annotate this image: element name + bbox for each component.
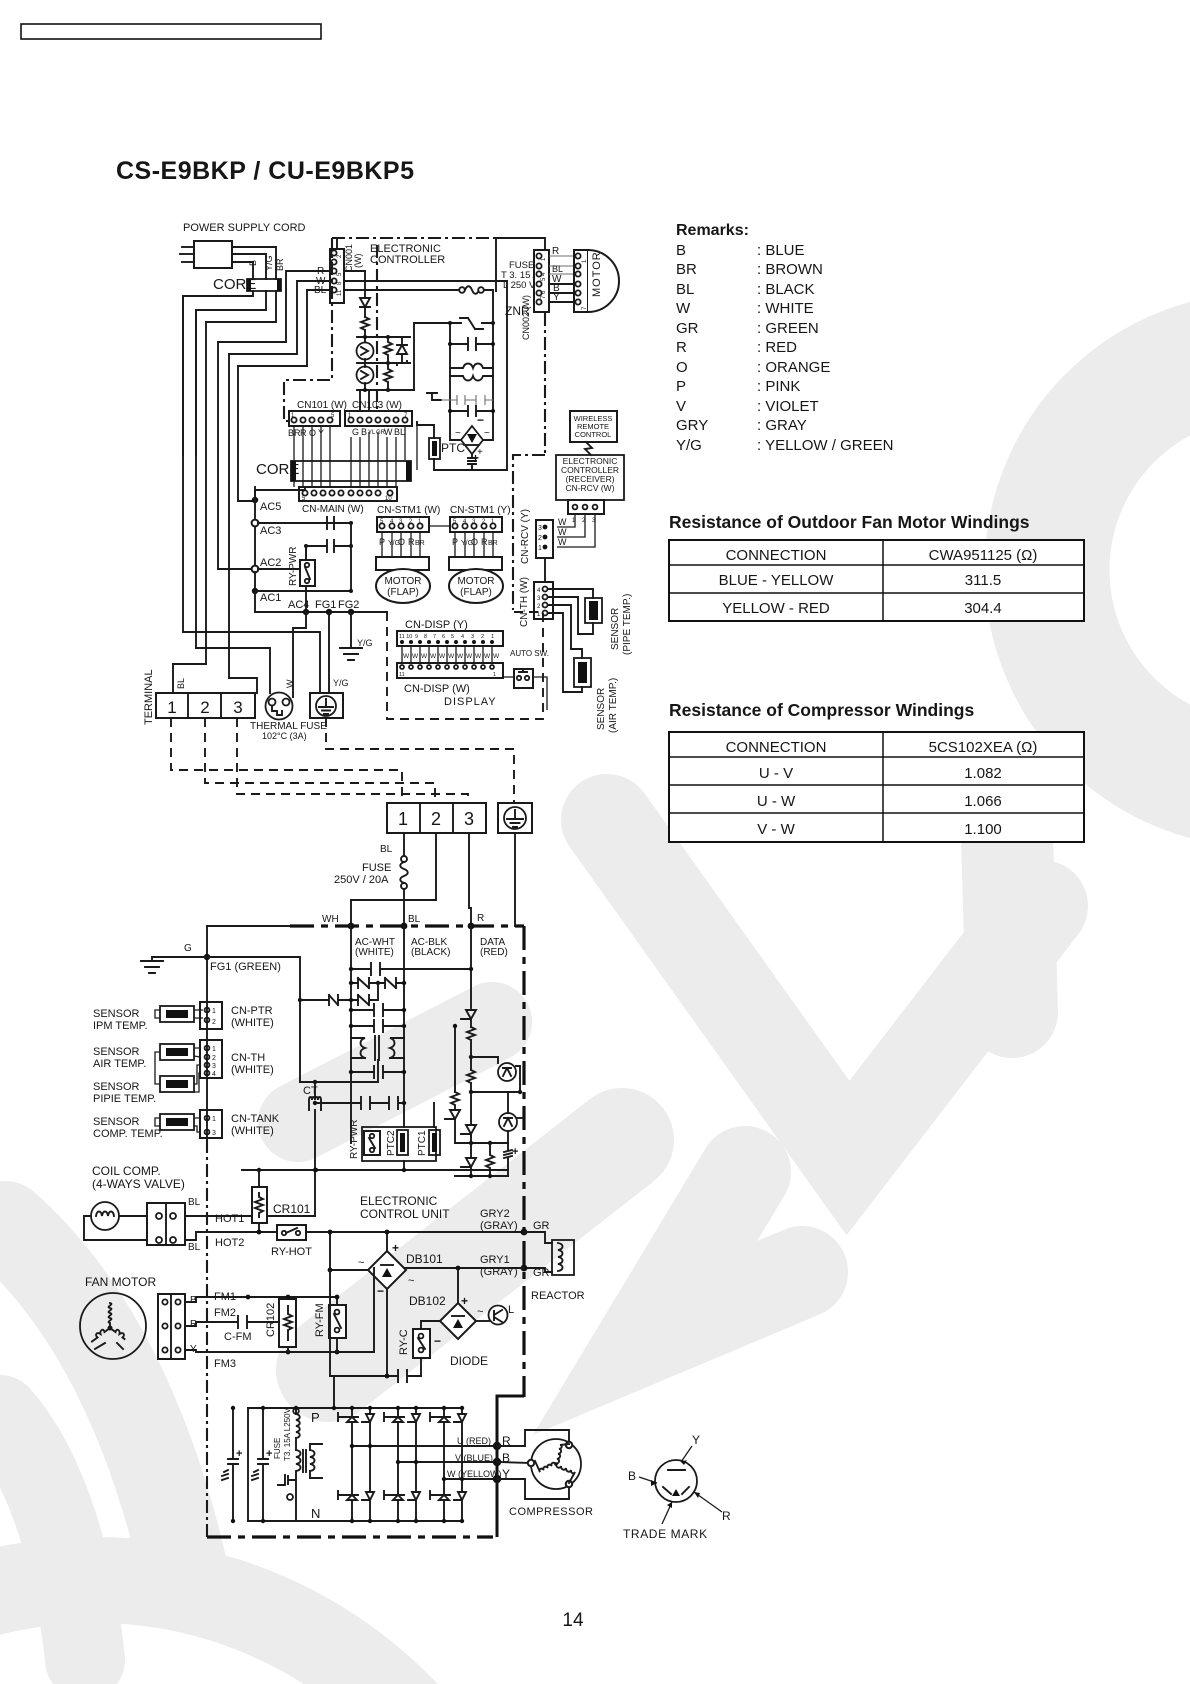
svg-text:W: W [412,653,419,660]
svg-text:Y: Y [692,1433,700,1447]
bridge + output to ground [468,454,476,470]
harness labels W row [403,653,500,660]
capacitor row 2 [450,406,493,416]
svg-text:AC2: AC2 [260,557,281,569]
svg-text:W: W [439,653,446,660]
wires CN103 pins down through core [350,437,352,487]
AC5 node [252,497,258,503]
resistor on R rail [467,1027,475,1040]
svg-text:: VIOLET: : VIOLET [757,398,819,415]
electrolytic cap 2 [258,1408,268,1521]
svg-text:BL: BL [380,844,393,855]
thermistor ipm [160,1006,194,1022]
capacitor row y1010 [351,1004,404,1016]
svg-text:W: W [448,653,455,660]
svg-text:FM2: FM2 [214,1307,236,1319]
svg-text:3: 3 [538,525,542,532]
svg-text:B: B [361,427,367,437]
bus wire B [182,296,184,632]
inverter feed riser [333,1376,335,1408]
wire FM1 [185,1297,337,1302]
wires display harness [402,646,492,663]
wires CN-TH to pipe sensor [548,589,593,598]
svg-text:250V / 20A: 250V / 20A [334,874,389,886]
svg-text:BR: BR [275,258,285,271]
svg-text:~: ~ [477,1306,483,1318]
svg-text:W: W [457,653,464,660]
wire R into CN001 [218,271,330,342]
svg-text:DB101: DB101 [406,1252,443,1266]
svg-text:L: L [508,1304,514,1316]
svg-text:O: O [398,537,405,547]
node FG1 [326,609,332,615]
svg-text:CN-PTR: CN-PTR [231,1005,273,1017]
svg-text:CONTROL: CONTROL [575,430,612,439]
FG2 wire to ground [350,612,352,648]
svg-text:304.4: 304.4 [964,600,1002,617]
svg-text:~: ~ [484,428,490,439]
wires coil comp [84,1216,147,1240]
svg-text:11: 11 [399,672,405,678]
svg-text:Y/G: Y/G [333,678,349,688]
svg-text:Y: Y [553,292,560,303]
svg-text:P: P [676,378,686,395]
svg-text:CN-STM1 (Y): CN-STM1 (Y) [450,505,511,516]
svg-text:5 4: 5 4 [541,272,547,281]
svg-text:14: 14 [562,1610,584,1631]
wires receiver to CN-RCV [557,514,575,527]
wires CN101 pins down through core [293,426,295,487]
indoor border left verticals [376,245,378,412]
watermark ring letter top-right [1047,355,1190,785]
relay RY-FM [329,1305,346,1338]
PTC2 [397,1130,408,1155]
svg-text:(GRAY): (GRAY) [480,1220,518,1232]
svg-text:GR: GR [533,1220,550,1232]
opto transistor 2 [507,1092,509,1113]
svg-text:SENSOR: SENSOR [610,608,621,650]
svg-text:CN-RCV (W): CN-RCV (W) [565,483,614,493]
node R [468,923,475,930]
wire G to filter [207,957,300,1082]
svg-text:BL: BL [314,285,327,296]
node GR2 [521,1229,528,1236]
svg-text:CR102: CR102 [265,1303,277,1337]
svg-text:1: 1 [212,1008,216,1015]
svg-text:CONNECTION: CONNECTION [726,739,827,756]
thick drop to border [496,1484,499,1537]
svg-text:CONTROL UNIT: CONTROL UNIT [360,1207,450,1221]
right ZNR rail [483,323,493,440]
svg-text:(RED): (RED) [480,947,508,958]
ZNR varistor symbol [450,318,493,329]
trademark circle [655,1460,697,1502]
node GR1 [521,1265,528,1272]
svg-text:GRY2: GRY2 [480,1208,510,1220]
rail R down [470,926,472,1008]
svg-text:2: 2 [538,535,542,542]
svg-text:FM3: FM3 [214,1358,236,1370]
watermark bottom-left arcs [5,1225,185,1575]
wire BL row to fuse [344,289,459,291]
coil comp solenoid [91,1202,119,1230]
svg-text:BL: BL [188,1197,201,1208]
dashed drop terminal 1 [171,718,402,803]
svg-text:BL: BL [676,281,694,298]
relay RY-C [413,1329,430,1358]
watermark letter N [607,820,1042,1158]
node WH [348,923,355,930]
svg-text:2: 2 [200,698,209,717]
svg-text:BLUE - YELLOW: BLUE - YELLOW [719,572,835,589]
connector CN-RCV (Y) [536,520,553,558]
AC3 node [252,520,259,527]
wires PTC block [433,1103,435,1127]
node G [204,954,210,960]
fan motor indoor [574,250,619,312]
capacitor across rails [450,338,493,350]
ground symbol outdoor [141,961,163,973]
receiver controller box [556,455,624,500]
flap motor 1 wires [382,532,420,557]
wires air/pipe sensors [155,1048,200,1092]
svg-text:SENSOR: SENSOR [93,1046,140,1058]
wire row y1082 [300,1060,378,1082]
svg-text:FUSE: FUSE [273,1438,282,1459]
svg-text:U - V: U - V [759,765,793,782]
wire reactor bottom [524,1268,552,1272]
svg-text:MOTOR: MOTOR [384,576,421,587]
svg-text:1.066: 1.066 [964,793,1002,810]
svg-text:CN101 (W): CN101 (W) [297,400,347,411]
thermistor comp [160,1114,194,1130]
svg-text:TERMINAL: TERMINAL [143,669,155,725]
relay unit RY-PWR PTC2 PTC1 [362,1127,440,1161]
coil comp connector [147,1203,185,1245]
opto coupler 1 [357,343,374,360]
motor flap 1 [376,569,430,603]
indoor border right upper [544,313,546,455]
bridge DB101 [368,1251,406,1289]
svg-text:B: B [248,260,258,266]
svg-text:(WHITE): (WHITE) [231,1064,274,1076]
svg-text:R: R [481,537,488,547]
flap motor 2 connector [449,557,502,570]
watermark letter L [645,1172,802,1338]
svg-text:CONNECTION: CONNECTION [726,547,827,564]
transistor L [489,1306,508,1325]
connector CN002 (W) [534,250,549,312]
svg-text:FG2: FG2 [338,599,359,611]
wires ipm sensor [155,1010,203,1018]
svg-text:BL: BL [176,678,186,689]
svg-text:PTC1: PTC1 [417,1130,428,1156]
svg-text:U (RED): U (RED) [457,1436,491,1446]
wire CN002-motor B [549,292,578,294]
thermistor air outdoor [160,1044,194,1060]
connector CN-DISP (W) [397,663,503,678]
thermal fuse [266,693,293,720]
compressor wires [497,1430,569,1446]
phase U wire [352,1445,497,1447]
svg-text:DB102: DB102 [409,1294,446,1308]
igbt top 1 [338,1408,358,1446]
svg-text:1: 1 [212,1046,216,1053]
terminal block outdoor [387,803,486,833]
svg-text:COMPRESSOR: COMPRESSOR [509,1506,593,1518]
relay contact RY-HOT [277,1225,306,1240]
svg-text:1: 1 [398,809,408,829]
svg-text:N: N [311,1506,320,1521]
svg-text:: ORANGE: : ORANGE [757,359,830,376]
wire CN001 to border top [336,238,338,249]
wire RY-C bottom to cap [420,1358,422,1376]
svg-text:(AIR TEMP.): (AIR TEMP.) [608,678,619,733]
svg-text:CONTROLLER: CONTROLLER [370,254,445,266]
connector CN103 (W) [345,411,412,426]
wire CN002-motor Y [549,301,578,303]
connector CN-DISP (Y) [397,631,503,646]
svg-text:SENSOR: SENSOR [93,1081,140,1093]
svg-text:P: P [311,1410,320,1425]
wire GRY1 row [404,1267,524,1269]
PTC1 [429,1130,440,1155]
top-left header box [21,24,321,39]
wire fuse to bus BL [403,889,405,926]
svg-text:W: W [558,527,567,537]
wire terminal1 to fuse [403,833,405,856]
svg-text:8: 8 [424,634,427,640]
svg-text:COMP. TEMP.: COMP. TEMP. [93,1128,163,1140]
svg-text:YELLOW - RED: YELLOW - RED [722,600,830,617]
svg-text:REACTOR: REACTOR [531,1290,585,1302]
svg-text:: BLACK: : BLACK [757,281,815,298]
svg-text:(BLACK): (BLACK) [411,947,450,958]
svg-text:HOT1: HOT1 [215,1213,244,1225]
connector CN-TH (W) [534,582,553,619]
svg-text:CN103 (W): CN103 (W) [352,400,402,411]
inverter fuse coil [296,1408,300,1450]
svg-text:W: W [403,653,410,660]
svg-text:AC3: AC3 [260,525,281,537]
svg-text:CR101: CR101 [273,1202,311,1216]
capacitor pair row y1103 [315,1097,404,1109]
svg-text:3: 3 [233,698,242,717]
node FG2 [348,609,354,615]
phase node B [493,1458,501,1466]
transformer outdoor [351,1036,404,1060]
svg-text:WH: WH [322,914,339,925]
svg-text:2: 2 [212,1019,216,1026]
watermark band A [328,1140,622,1370]
wire ground terminal green [514,833,516,926]
fan motor outdoor [80,1293,146,1359]
svg-text:TRADE MARK: TRADE MARK [623,1527,708,1541]
svg-text:(W): (W) [353,254,363,269]
svg-text:GR: GR [533,1267,550,1279]
auto switch wires [503,676,514,678]
svg-text:B: B [676,242,686,259]
svg-text:RY-C: RY-C [398,1329,410,1355]
svg-text:W: W [384,427,393,437]
wire CN103 pin7 to PTC [416,422,418,470]
display dashed box [387,612,543,719]
svg-text:CN-TH (W): CN-TH (W) [519,577,530,627]
svg-text:CN-TANK: CN-TANK [231,1113,280,1125]
wires CN101 pins up to cluster [359,390,361,411]
ferrite N on green [322,995,351,1005]
watermark band D [298,1022,492,1122]
svg-text:Y/G: Y/G [264,255,274,271]
capacitor AC2 row [306,540,351,552]
diode bottom row [461,1143,476,1176]
svg-text:R: R [408,537,415,547]
bus wire Y/G [195,310,197,648]
svg-text:IPM TEMP.: IPM TEMP. [93,1020,148,1032]
PTC wiring [417,422,434,438]
wire terminal3 to bus R [469,833,471,926]
svg-text:R: R [676,339,687,356]
wire db101 bottom cross [385,1374,390,1379]
svg-text:1.100: 1.100 [964,821,1002,838]
indoor border jog [513,455,545,610]
compressor motor [528,1439,581,1489]
svg-text:P: P [452,537,458,547]
staircase wire R [218,342,252,569]
sensor pipe temp thermistor [585,598,602,623]
wire HOT2 row [185,1232,524,1240]
svg-text:GRY: GRY [676,417,708,434]
svg-text:5CS102XEA (Ω): 5CS102XEA (Ω) [929,739,1038,756]
thick link border to phases [497,1396,524,1440]
svg-text:Remarks:: Remarks: [676,222,749,239]
svg-text:R: R [477,913,484,924]
resistor CR102 [279,1299,296,1347]
svg-text:AC1: AC1 [260,592,281,604]
wire cord Y/G [232,254,266,279]
fuse 250V/20A [400,856,408,889]
svg-text:1: 1 [538,545,542,552]
power plug [194,241,232,268]
auto switch [514,669,533,688]
connector CN-TH outdoor [200,1040,222,1078]
wire top feed to CN002 pin1 [496,238,545,291]
svg-text:SENSOR: SENSOR [596,688,607,730]
svg-text:T3. 15A L250V: T3. 15A L250V [283,1407,292,1461]
battery zigzag bottom [504,1143,512,1176]
svg-text:: WHITE: : WHITE [757,300,814,317]
svg-text:HOT2: HOT2 [215,1237,244,1249]
svg-text:GRY1: GRY1 [480,1254,510,1266]
dashed drop terminal 3 [237,718,468,803]
svg-text:CN002 (W): CN002 (W) [521,295,531,340]
DB101 wires [386,1232,388,1251]
svg-text:CS-E9BKP / CU-E9BKP5: CS-E9BKP / CU-E9BKP5 [116,157,415,185]
diode chain off R row [364,271,366,298]
capacitor pair row [441,395,493,405]
svg-text:G: G [184,943,192,954]
sensor air temp thermistor [574,658,591,687]
branch resistor diode x455 [454,1026,456,1092]
svg-text:−: − [434,1334,441,1348]
svg-text:Resistance of Compressor Windi: Resistance of Compressor Windings [669,700,974,720]
svg-text:W: W [475,653,482,660]
capacitor row inverter input [330,1370,421,1382]
svg-text:PIPIE TEMP.: PIPIE TEMP. [93,1093,156,1105]
dashed drop ground [326,718,514,803]
svg-text:CN-STM1 (W): CN-STM1 (W) [377,505,440,516]
fan motor connector [158,1294,185,1359]
svg-text:Y/G: Y/G [357,638,373,648]
svg-text:RY-PWR: RY-PWR [288,547,299,586]
svg-text:~: ~ [408,1275,414,1287]
svg-text:7: 7 [433,634,436,640]
flap motor 1 connector [376,557,429,570]
inverter transformer [296,1444,322,1478]
svg-text:CN-DISP (Y): CN-DISP (Y) [405,619,468,631]
svg-text:1: 1 [491,634,494,640]
right rail W down [493,281,507,470]
svg-text:R: R [552,246,559,257]
PTC resistor [429,438,440,459]
svg-text:W: W [558,537,567,547]
bottom rail indoor pcb [255,611,387,613]
svg-text:BR: BR [415,540,425,547]
wire row y1143 [455,1142,508,1144]
svg-text:W: W [285,679,295,688]
trademark arrow from caption [662,1502,672,1524]
wire x374 riser FM3-DB101 [373,1268,375,1352]
wireless remote control box [570,411,617,442]
svg-text:CN-RCV (Y): CN-RCV (Y) [520,509,531,564]
AC1 node [252,588,258,594]
resistor [361,317,369,330]
svg-text:L 250 V: L 250 V [503,280,536,291]
node BL [401,923,408,930]
ferrite N filter row1 [351,982,404,984]
svg-text:W: W [558,517,567,527]
svg-text:CWA951125 (Ω): CWA951125 (Ω) [929,547,1038,564]
svg-text:V - W: V - W [757,821,795,838]
svg-text:3: 3 [471,634,474,640]
igbt bottom diode 1 [362,1446,374,1521]
svg-text:: BLUE: : BLUE [757,242,805,259]
svg-text:1.082: 1.082 [964,765,1002,782]
svg-text:BL: BL [394,427,405,437]
svg-text:W: W [493,653,500,660]
outdoor border top [207,925,290,927]
core ferrite 2 [291,461,411,481]
phase V wire [398,1461,497,1463]
svg-text:G: G [352,427,359,437]
wire x330 riser [329,1232,331,1376]
svg-text:ELECTRONIC: ELECTRONIC [360,1194,438,1208]
ground stub [427,393,441,400]
svg-text:(WHITE): (WHITE) [231,1125,274,1137]
wire CN002-motor W [549,283,578,285]
svg-text:−: − [477,413,484,427]
igbt diode 1 [362,1408,374,1446]
wire G to ground [152,957,207,961]
ground terminal indoor [310,693,343,718]
bus wires turn to terminal [183,632,320,693]
svg-text:+: + [477,447,483,458]
ferrite N filter row2 [338,983,378,1000]
svg-text:B: B [628,1469,636,1483]
svg-text:FAN MOTOR: FAN MOTOR [85,1275,156,1289]
bus wire BR [205,322,207,664]
relay RY-PWR indoor [300,560,315,586]
